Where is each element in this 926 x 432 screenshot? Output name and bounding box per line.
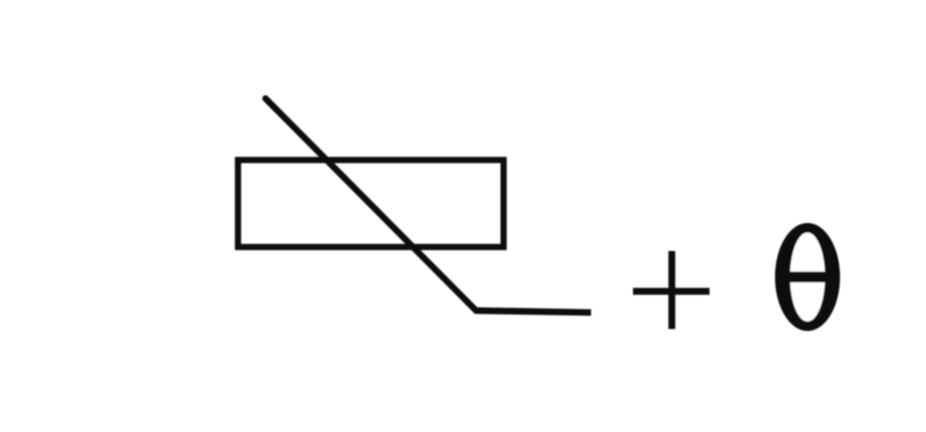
thermistor RT1 diagonal slash [266,99,477,311]
thermistor RT1 body (rectangle) [238,160,504,247]
thermistor RT1 bent lead tail (wire) [475,311,592,313]
label: plus sign (positive temperature coefficient) [633,251,710,329]
label: theta (temperature) [775,223,840,331]
